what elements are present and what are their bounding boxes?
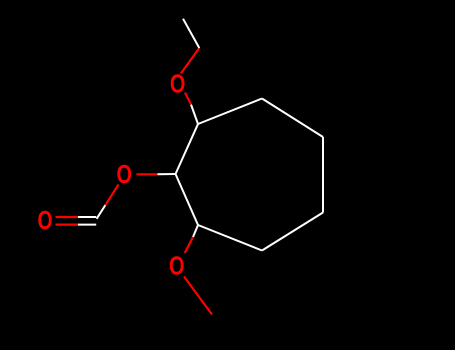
svg-text:O: O: [170, 70, 186, 98]
ester O to carbonyl C bond, carbon part (white): [97, 205, 106, 219]
svg-text:O: O: [169, 252, 185, 280]
carbonyl double bond lower line, carbon half (white): [78, 224, 96, 226]
bond A to top O, oxygen half (red): [185, 93, 191, 105]
ester O to ring L bond, carbon part (white): [158, 173, 176, 175]
bottom methyl bond (red): [184, 277, 212, 315]
ring bond B-C: [262, 99, 323, 138]
ring bond D-E: [262, 213, 323, 251]
ester O to carbonyl C bond, oxygen part (red): [105, 185, 118, 206]
svg-text:O: O: [38, 207, 53, 235]
carbonyl double bond lower line, oxygen half (red): [56, 224, 79, 226]
ring bond C-D: [322, 137, 324, 213]
bond F to bottom O, carbon half (white): [193, 225, 198, 237]
ring bond L-A: [176, 124, 199, 174]
carbonyl double bond upper line, carbon half (white): [78, 216, 96, 218]
bond A to top O, carbon half (white): [191, 105, 198, 125]
top C1 to C2 bond (white): [183, 19, 199, 48]
ring bond A-B: [198, 99, 262, 125]
carbonyl double bond upper line, oxygen half (red): [56, 216, 79, 218]
ring bond F-L: [176, 174, 199, 225]
top O to C1 bond (red): [181, 48, 200, 74]
ester O to ring L bond, oxygen part (red): [137, 173, 158, 175]
ring bond E-F: [198, 225, 262, 251]
bond F to bottom O, oxygen half (red): [185, 237, 193, 253]
